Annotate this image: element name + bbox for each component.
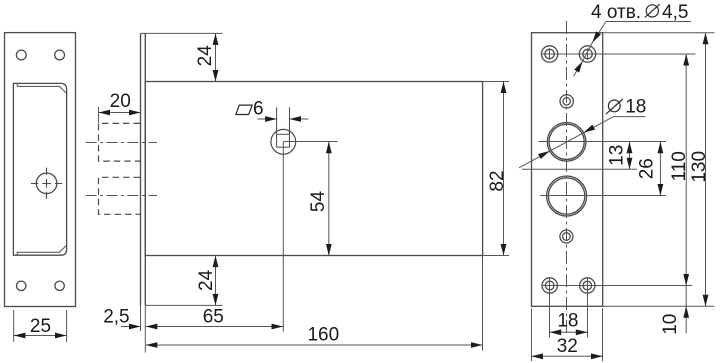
svg-text:24: 24 bbox=[196, 269, 217, 291]
svg-text:24: 24 bbox=[195, 45, 216, 67]
svg-text:10: 10 bbox=[660, 314, 681, 335]
svg-text:18: 18 bbox=[557, 311, 578, 332]
svg-text:110: 110 bbox=[669, 151, 690, 181]
svg-text:32: 32 bbox=[557, 336, 578, 357]
svg-text:18: 18 bbox=[625, 97, 646, 118]
svg-text:130: 130 bbox=[689, 151, 710, 183]
svg-text:160: 160 bbox=[307, 325, 339, 346]
svg-text:6: 6 bbox=[253, 99, 264, 120]
svg-text:26: 26 bbox=[637, 158, 658, 179]
svg-text:65: 65 bbox=[203, 306, 224, 327]
svg-text:4,5: 4,5 bbox=[662, 2, 688, 23]
svg-text:13: 13 bbox=[607, 145, 628, 166]
svg-text:54: 54 bbox=[308, 191, 329, 213]
svg-text:20: 20 bbox=[110, 91, 131, 112]
svg-text:2,5: 2,5 bbox=[103, 307, 129, 328]
svg-text:4 отв.: 4 отв. bbox=[591, 2, 641, 23]
svg-text:25: 25 bbox=[30, 316, 51, 337]
svg-text:82: 82 bbox=[487, 170, 508, 191]
